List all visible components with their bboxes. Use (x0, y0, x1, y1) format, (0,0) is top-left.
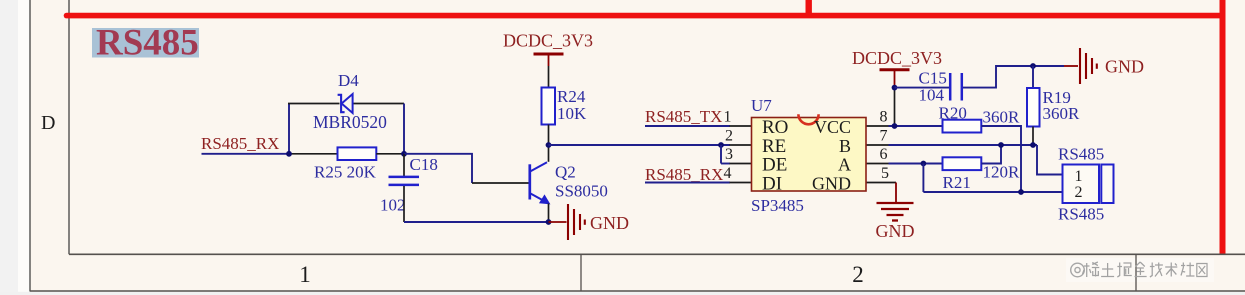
node B/R19 junction dot (1030, 142, 1036, 148)
svg-text:7: 7 (880, 128, 888, 145)
svg-text:DE: DE (762, 155, 787, 176)
svg-text:B: B (839, 136, 851, 156)
node RE/DE junction dot (718, 142, 724, 148)
title highlight (92, 28, 199, 58)
pin stub 4 (730, 182, 753, 184)
pin stub 3 (730, 163, 753, 165)
svg-text:104: 104 (919, 86, 945, 105)
svg-text:R25 20K: R25 20K (314, 163, 377, 182)
node bottom rail/R20 junction dot (1018, 189, 1024, 195)
svg-text:GND: GND (812, 174, 851, 194)
svg-text:10K: 10K (557, 104, 587, 123)
ground GND (top right, fading bars) (1080, 48, 1097, 84)
wire diode branch left (288, 103, 340, 105)
watermark (1071, 263, 1085, 277)
svg-text:RS485_RX: RS485_RX (201, 134, 279, 153)
wire power to R24 (548, 66, 550, 88)
wire R25 to node B (376, 153, 404, 155)
wire B down to connector pin 1 (1037, 145, 1063, 175)
emitter node junction dot (546, 219, 552, 225)
node A junction dot (286, 151, 292, 157)
wire diode branch down to node B (403, 104, 405, 154)
wire A line from pin 6 to R21 (889, 163, 943, 165)
svg-text:DCDC_3V3: DCDC_3V3 (852, 48, 942, 68)
node B junction dot (401, 151, 407, 157)
svg-text:D4: D4 (338, 71, 359, 90)
wire GND rail red lead (1064, 65, 1078, 67)
wire R21 right up to B line (981, 145, 1001, 164)
svg-text:8: 8 (880, 109, 888, 126)
svg-text:RS485_TX: RS485_TX (645, 107, 722, 126)
svg-text:RS485: RS485 (1058, 205, 1104, 224)
node A/down junction dot (921, 161, 927, 167)
svg-text:SS8050: SS8050 (555, 182, 608, 201)
node C15/R19/GND junction dot (1030, 63, 1036, 69)
connector RS485 body (1063, 165, 1100, 204)
svg-text:MBR0520: MBR0520 (313, 112, 387, 132)
frame lines (29, 0, 31, 292)
capacitor C18 (389, 177, 420, 185)
svg-text:1: 1 (299, 262, 311, 287)
svg-text:5: 5 (881, 165, 889, 182)
wire RS485_TX to pin 1 (645, 125, 730, 127)
wire C15 right to GND rail (963, 66, 1064, 88)
svg-text:SP3485: SP3485 (751, 196, 804, 215)
wire VCC rail to R20 (889, 125, 943, 127)
wire node A to R25 (289, 153, 338, 155)
pin stub 5 (866, 182, 896, 184)
power port DCDC_3V3 (right) (880, 70, 910, 88)
wire node B down to C18 (403, 154, 405, 176)
svg-text:360R: 360R (1043, 104, 1081, 123)
svg-text:1: 1 (724, 109, 732, 126)
resistor R19 (1027, 88, 1040, 127)
wire emitter to GND symbol (549, 221, 567, 223)
red selection line horizontal top (67, 13, 1223, 19)
wire bottom rail to connector pin 2 (923, 191, 1062, 193)
resistor R24 (542, 88, 556, 125)
svg-text:DI: DI (762, 174, 782, 195)
connector RS485 side tab (1101, 165, 1113, 204)
red stub top (806, 0, 812, 16)
svg-text:GND: GND (590, 213, 629, 233)
resistor R20 (943, 120, 982, 133)
wire power node down to VCC pin 8 (894, 88, 896, 126)
power port DCDC_3V3 (left) (534, 54, 564, 66)
wire GND rail down to R19 (1032, 66, 1034, 88)
ground GND (emitter, fading bars) (568, 204, 585, 240)
svg-text:4: 4 (724, 165, 732, 182)
svg-text:DCDC_3V3: DCDC_3V3 (503, 30, 593, 50)
pin stub 2 (730, 144, 753, 146)
svg-text:2: 2 (852, 262, 864, 287)
svg-text:C18: C18 (410, 155, 438, 174)
wire R19 down to B line (1032, 127, 1034, 146)
svg-text:RS485: RS485 (96, 23, 199, 64)
svg-text:D: D (41, 112, 55, 134)
svg-text:1: 1 (1075, 168, 1083, 185)
svg-text:RS485_RX: RS485_RX (645, 165, 723, 184)
wire diode branch right (353, 103, 404, 105)
node power/VCC junction dot (892, 123, 898, 129)
svg-text:VCC: VCC (814, 117, 851, 137)
pin stub 8 (866, 125, 889, 127)
svg-text:6: 6 (880, 146, 888, 163)
svg-text:RO: RO (762, 117, 788, 138)
wire B line from pin 7 (889, 144, 1038, 146)
wire node A up to diode branch (288, 104, 290, 154)
wire R24 to collector node (548, 125, 550, 146)
transistor Q2 (530, 145, 550, 222)
svg-text:RS485: RS485 (1058, 145, 1104, 164)
red selection line vertical right (1220, 0, 1226, 254)
wire power node to C15 (895, 87, 950, 89)
wire bottom rail to Q2 emitter (404, 221, 549, 223)
wire C18 down to bottom rail (403, 186, 405, 222)
resistor R21 (943, 157, 982, 170)
svg-text:3: 3 (725, 146, 733, 163)
node power/C15 junction dot (892, 85, 898, 91)
wire collector to U7 RE/DE (549, 144, 731, 146)
svg-text:Q2: Q2 (555, 163, 576, 182)
collector node junction dot (546, 142, 552, 148)
svg-text:R20: R20 (939, 104, 967, 123)
U7 notch arc (798, 114, 818, 124)
wire DE jog to pin 3 (721, 163, 730, 165)
svg-text:2: 2 (1075, 184, 1083, 201)
svg-text:2: 2 (725, 128, 733, 145)
op-amp U7 body (752, 118, 867, 192)
pin stub 1 (730, 125, 753, 127)
capacitor C15 (950, 73, 962, 101)
wire R20 right then down to A net (981, 126, 1021, 192)
wire RS485_RX to node A (202, 153, 290, 155)
wire A node down to bottom rail (922, 164, 924, 193)
wire RS485_RX to pin 4 (645, 182, 730, 184)
node B/R21 junction dot (998, 142, 1004, 148)
svg-text:360R: 360R (983, 108, 1021, 127)
svg-text:120R: 120R (983, 163, 1021, 182)
resistor R25 (338, 147, 377, 160)
svg-text:102: 102 (380, 196, 406, 215)
wire node B right then down to Q2 base (404, 154, 472, 183)
svg-text:A: A (838, 155, 851, 175)
wire RE node down to DE pin (720, 145, 722, 164)
pin stub 7 (866, 144, 889, 146)
svg-text:U7: U7 (751, 96, 772, 115)
svg-text:GND: GND (876, 221, 915, 241)
svg-text:GND: GND (1105, 57, 1144, 77)
ground GND (under U7, earth style) (877, 183, 914, 221)
svg-text:R21: R21 (943, 173, 971, 192)
pin stub 6 (866, 163, 889, 165)
diode D4 symbol (schottky) (338, 94, 353, 113)
